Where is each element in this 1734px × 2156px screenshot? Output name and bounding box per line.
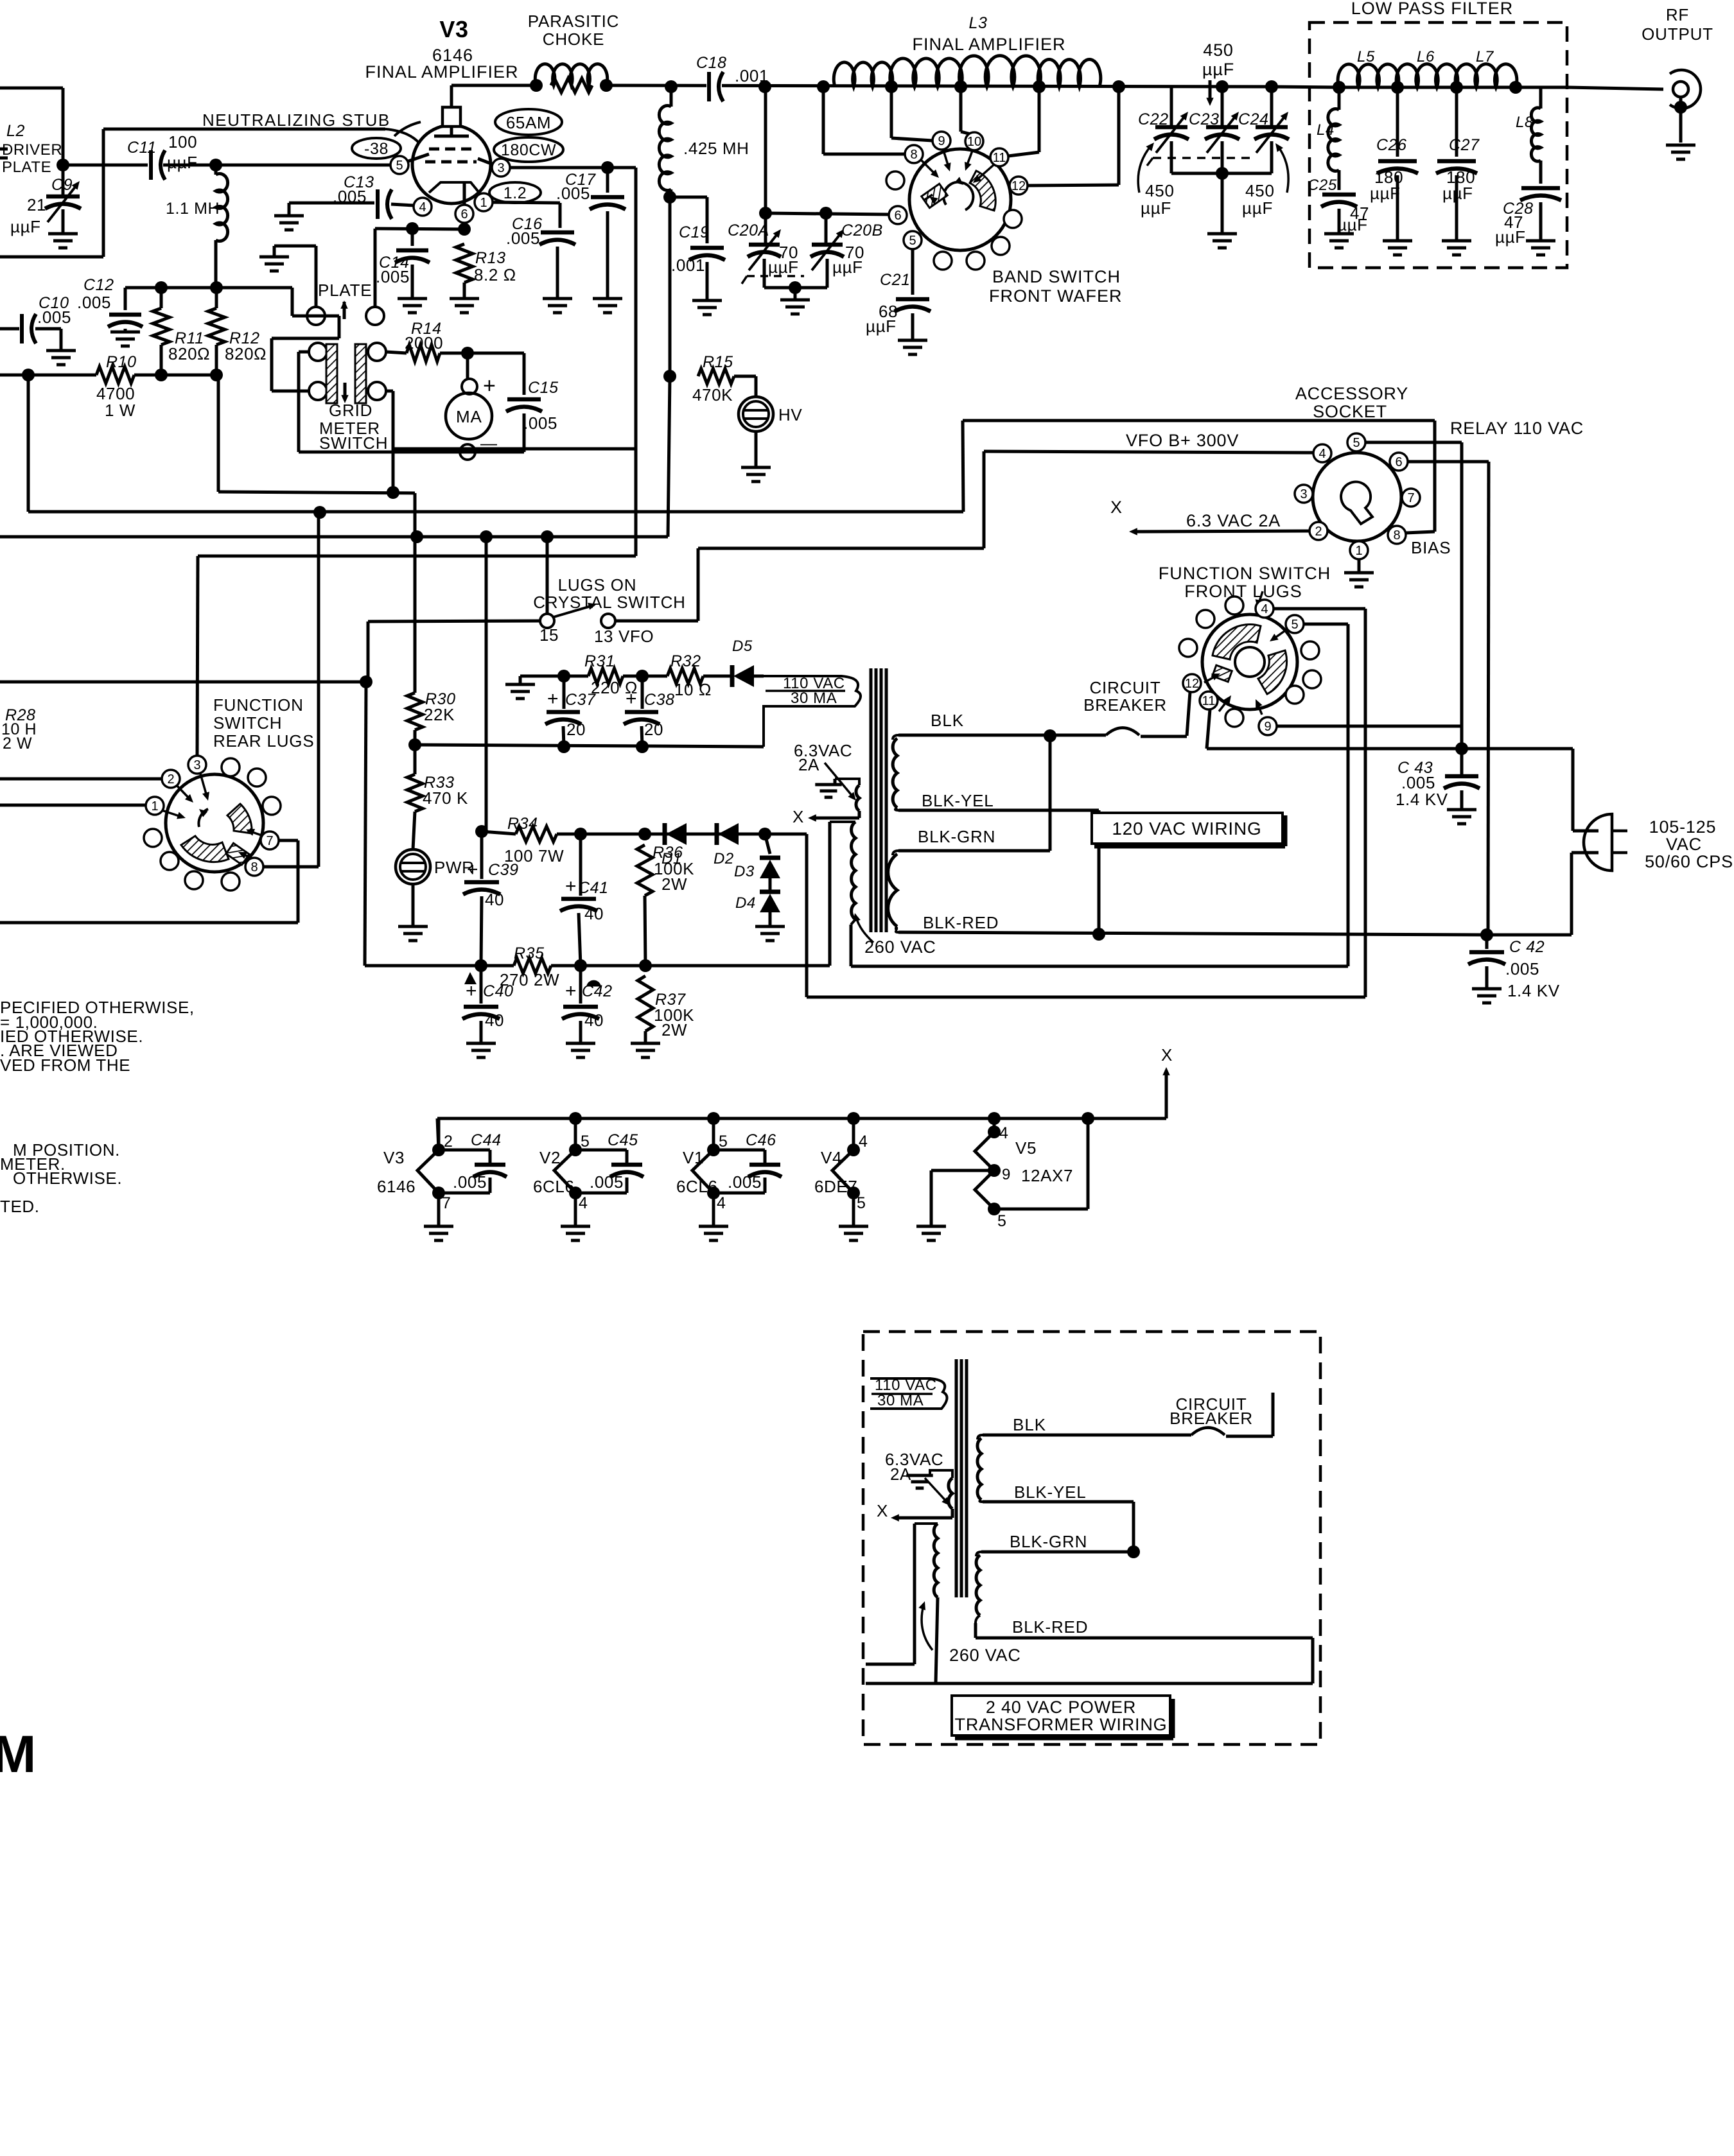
svg-text:NEUTRALIZING STUB: NEUTRALIZING STUB bbox=[202, 110, 390, 130]
transformer core bbox=[871, 668, 886, 932]
wire pin6 bus bbox=[375, 222, 471, 307]
function switch rear wafer bbox=[162, 774, 263, 872]
svg-text:6146: 6146 bbox=[377, 1177, 416, 1196]
wire crystal riser to bus D bbox=[368, 451, 984, 682]
pin 1 bbox=[475, 193, 493, 211]
wire R35 bus bbox=[365, 682, 830, 972]
svg-text:4: 4 bbox=[999, 1124, 1009, 1142]
milliammeter MA bbox=[446, 353, 498, 460]
svg-text:C42: C42 bbox=[582, 982, 613, 1000]
svg-text:+: + bbox=[483, 374, 496, 398]
svg-text:OTHERWISE.: OTHERWISE. bbox=[13, 1169, 122, 1188]
svg-text:C15: C15 bbox=[528, 379, 559, 397]
svg-text:CIRCUIT: CIRCUIT bbox=[1089, 678, 1160, 697]
svg-text:450: 450 bbox=[1203, 40, 1233, 60]
svg-text:11: 11 bbox=[993, 151, 1006, 165]
svg-text:FINAL AMPLIFIER: FINAL AMPLIFIER bbox=[912, 35, 1065, 54]
svg-text:D3: D3 bbox=[734, 863, 755, 880]
svg-text:1: 1 bbox=[151, 799, 158, 813]
wire rear lug7 bbox=[0, 840, 298, 923]
pin 4 bbox=[414, 198, 432, 216]
function switch front wafer bbox=[1202, 591, 1297, 715]
svg-text:470 K: 470 K bbox=[423, 788, 468, 808]
capacitor C39 bbox=[463, 831, 519, 966]
svg-text:X: X bbox=[1161, 1045, 1173, 1065]
svg-text:2A: 2A bbox=[890, 1465, 911, 1484]
svg-text:6CL6: 6CL6 bbox=[533, 1177, 575, 1196]
svg-text:V2: V2 bbox=[539, 1148, 561, 1167]
inductor L8 bbox=[1516, 87, 1541, 184]
svg-text:L7: L7 bbox=[1476, 48, 1494, 65]
neutralizing stub bbox=[103, 110, 419, 143]
svg-text:22K: 22K bbox=[424, 705, 455, 724]
svg-text:R15: R15 bbox=[703, 353, 733, 371]
svg-text:12AX7: 12AX7 bbox=[1021, 1166, 1073, 1185]
resistor R33 bbox=[407, 745, 468, 849]
svg-text:C12: C12 bbox=[83, 276, 114, 294]
resistor R35 bbox=[500, 944, 559, 989]
svg-text:8: 8 bbox=[1393, 528, 1400, 543]
tube V1 heater with C46 bbox=[676, 1118, 782, 1240]
capacitor C14 bbox=[376, 229, 430, 313]
svg-text:.425 MH: .425 MH bbox=[683, 139, 749, 158]
capacitor C38 bbox=[624, 676, 675, 747]
lamp HV bbox=[739, 376, 802, 482]
svg-text:VED FROM THE: VED FROM THE bbox=[0, 1056, 130, 1075]
oval -38 bbox=[352, 138, 401, 159]
240 box BLK wire with breaker bbox=[983, 1393, 1273, 1436]
240 box X arrow bbox=[877, 1501, 952, 1522]
notes text block bbox=[0, 998, 195, 1075]
svg-text:.005: .005 bbox=[523, 413, 557, 433]
wire accessory lug6 down bbox=[1408, 462, 1489, 935]
svg-text:C21: C21 bbox=[880, 271, 911, 289]
svg-text:7: 7 bbox=[266, 834, 273, 848]
wire BLK with circuit breaker bbox=[898, 728, 1187, 743]
label FUNCTION SWITCH REAR LUGS bbox=[213, 695, 314, 751]
L2 driver plate shield box bbox=[0, 88, 103, 257]
capacitor C19 bbox=[671, 223, 725, 315]
svg-text:260 VAC: 260 VAC bbox=[949, 1646, 1021, 1665]
capacitor C13 bbox=[289, 173, 414, 219]
svg-text:L4: L4 bbox=[1317, 121, 1335, 139]
svg-text:450: 450 bbox=[1145, 181, 1175, 200]
svg-text:PWR: PWR bbox=[434, 858, 474, 877]
svg-text:C40: C40 bbox=[483, 982, 514, 1000]
wire C22-C24 bottom and ground bbox=[1147, 158, 1272, 248]
wire left bias line bbox=[0, 675, 372, 688]
svg-text:R31: R31 bbox=[584, 652, 615, 670]
svg-text:2 W: 2 W bbox=[3, 735, 32, 752]
svg-text:820Ω: 820Ω bbox=[168, 344, 210, 363]
svg-text:C27: C27 bbox=[1449, 136, 1480, 154]
svg-text:.005: .005 bbox=[1505, 959, 1539, 978]
svg-text:40: 40 bbox=[485, 1011, 504, 1030]
svg-text:3: 3 bbox=[497, 161, 504, 175]
svg-text:1 W: 1 W bbox=[105, 401, 136, 420]
svg-text:5: 5 bbox=[396, 159, 403, 173]
svg-text:SWITCH: SWITCH bbox=[213, 713, 282, 733]
label CIRCUIT BREAKER bbox=[1083, 678, 1167, 715]
label PLATE with arrow bbox=[318, 281, 372, 319]
label LUGS ON CRYSTAL SWITCH bbox=[533, 575, 686, 612]
240 box 6.3VAC winding bbox=[885, 1450, 952, 1509]
capacitor C17 bbox=[556, 161, 626, 313]
svg-text:2000: 2000 bbox=[405, 333, 443, 352]
svg-text:M: M bbox=[0, 1725, 36, 1784]
svg-text:12: 12 bbox=[1185, 677, 1199, 691]
wire front lug11 bbox=[1207, 709, 1573, 755]
240 box BLK-RED wire bbox=[976, 1617, 1313, 1683]
240 VAC dashed box bbox=[863, 1332, 1320, 1744]
pin 5 bbox=[390, 156, 408, 174]
capacitor C40 bbox=[462, 966, 514, 1057]
svg-text:.005: .005 bbox=[333, 187, 367, 206]
wire to C19 bbox=[670, 197, 707, 243]
svg-text:C26: C26 bbox=[1376, 136, 1407, 154]
svg-text:5: 5 bbox=[997, 1212, 1007, 1230]
svg-text:BLK-YEL: BLK-YEL bbox=[1014, 1482, 1087, 1502]
tube V4 heater bbox=[814, 1118, 868, 1240]
svg-text:9: 9 bbox=[938, 134, 945, 148]
capacitor C23 (variable) bbox=[1189, 80, 1239, 173]
svg-text:7: 7 bbox=[1407, 491, 1414, 505]
wire C11 to pin5 bbox=[163, 159, 391, 171]
label 450 uuF with down arrow bbox=[1202, 40, 1234, 106]
wire B+ column bbox=[663, 197, 676, 537]
svg-text:OUTPUT: OUTPUT bbox=[1642, 24, 1713, 44]
wire driver plate to C11 bbox=[57, 159, 148, 171]
svg-text:L3: L3 bbox=[968, 14, 987, 32]
svg-text:5: 5 bbox=[1291, 618, 1298, 632]
diode D2 bbox=[714, 823, 739, 867]
capacitor C10 bbox=[0, 294, 76, 365]
wire BLK-YEL bbox=[898, 810, 1099, 934]
accessory socket bbox=[1313, 453, 1401, 541]
svg-text:BLK-RED: BLK-RED bbox=[923, 913, 999, 932]
label R28 choke bbox=[1, 706, 37, 752]
svg-text:5: 5 bbox=[1353, 436, 1360, 450]
ground accessory lug 1 bbox=[1344, 559, 1374, 587]
svg-text:450: 450 bbox=[1245, 181, 1275, 200]
svg-text:µµF: µµF bbox=[1442, 184, 1473, 203]
svg-text:TRANSFORMER WIRING: TRANSFORMER WIRING bbox=[955, 1715, 1168, 1734]
svg-text:BREAKER: BREAKER bbox=[1083, 695, 1167, 715]
svg-text:5: 5 bbox=[581, 1133, 590, 1151]
resistor R12 bbox=[208, 288, 267, 375]
transformer 110VAC 30MA winding bracket bbox=[764, 675, 861, 747]
svg-text:2W: 2W bbox=[661, 1020, 687, 1039]
capacitor C20B (variable) bbox=[810, 207, 883, 288]
svg-text:7: 7 bbox=[442, 1194, 451, 1212]
resistor R36 bbox=[637, 844, 694, 966]
wire bus A relay bbox=[28, 375, 963, 519]
band switch front wafer bbox=[909, 149, 1011, 250]
svg-text:FRONT LUGS: FRONT LUGS bbox=[1184, 582, 1302, 601]
svg-text:FINAL AMPLIFIER: FINAL AMPLIFIER bbox=[365, 62, 518, 82]
svg-text:C20B: C20B bbox=[841, 222, 883, 239]
wire rear lug8 bbox=[263, 512, 319, 867]
svg-text:10: 10 bbox=[967, 135, 981, 149]
240 box label BLK / CIRCUIT BREAKER bbox=[1013, 1395, 1253, 1434]
capacitor C37 bbox=[545, 676, 596, 747]
capacitor C21 bbox=[866, 249, 931, 354]
svg-text:L6: L6 bbox=[1417, 48, 1435, 65]
svg-text:µµF: µµF bbox=[1242, 198, 1273, 218]
svg-text:.005: .005 bbox=[37, 308, 71, 327]
svg-text:820Ω: 820Ω bbox=[225, 344, 267, 363]
svg-text:40: 40 bbox=[584, 1011, 604, 1030]
resistor R13 bbox=[450, 244, 516, 313]
notes text block 2 bbox=[0, 1140, 122, 1216]
resistor R10 bbox=[0, 353, 223, 420]
svg-text:40: 40 bbox=[584, 904, 604, 923]
ground left of plate jack bbox=[259, 246, 316, 307]
label box 120 VAC WIRING bbox=[1092, 813, 1285, 846]
svg-text:L5: L5 bbox=[1357, 48, 1375, 65]
inductor 1.1 MH choke bbox=[166, 165, 228, 288]
tube V2 heater with C45 bbox=[533, 1118, 644, 1240]
svg-text:4: 4 bbox=[859, 1133, 868, 1151]
svg-text:µµF: µµF bbox=[1141, 198, 1171, 218]
capacitor C25 bbox=[1308, 177, 1369, 248]
svg-text:L8: L8 bbox=[1516, 114, 1534, 131]
wire pin1 to C16 bbox=[492, 202, 560, 228]
power plug bbox=[1584, 814, 1627, 871]
svg-text:HV: HV bbox=[778, 405, 802, 424]
svg-text:8: 8 bbox=[250, 860, 258, 874]
svg-text:X: X bbox=[877, 1501, 888, 1520]
svg-text:µµF: µµF bbox=[167, 153, 198, 172]
capacitor C22 (variable) bbox=[1138, 87, 1189, 173]
svg-text:BLK: BLK bbox=[1013, 1415, 1046, 1434]
svg-text:2: 2 bbox=[1315, 525, 1322, 539]
gang arrows 450uuF labels bbox=[1138, 143, 1288, 218]
svg-text:5: 5 bbox=[719, 1133, 728, 1151]
svg-text:15: 15 bbox=[539, 625, 559, 645]
svg-text:PLATE: PLATE bbox=[318, 281, 372, 300]
wire R10 riser bbox=[218, 375, 415, 499]
wire bridge y699 bbox=[393, 448, 636, 451]
svg-text:C22: C22 bbox=[1138, 110, 1169, 128]
svg-text:120 VAC WIRING: 120 VAC WIRING bbox=[1112, 819, 1261, 839]
svg-text:C11: C11 bbox=[127, 139, 157, 157]
ground C9 bbox=[48, 209, 78, 248]
tube V3 6146 final amplifier bbox=[394, 85, 495, 205]
240 box transformer core bbox=[956, 1359, 967, 1597]
svg-text:µµF: µµF bbox=[1337, 215, 1368, 234]
oval 180CW bbox=[494, 137, 563, 162]
svg-text:40: 40 bbox=[485, 890, 504, 909]
svg-text:2W: 2W bbox=[661, 874, 687, 894]
svg-text:.005: .005 bbox=[506, 229, 540, 248]
transformer primary BLK-GRN winding bbox=[888, 851, 898, 932]
svg-text:20: 20 bbox=[566, 720, 586, 739]
plate jack circles bbox=[307, 307, 384, 325]
svg-text:MA: MA bbox=[456, 407, 482, 426]
wire front lug12 to breaker bbox=[1187, 692, 1190, 736]
svg-text:D2: D2 bbox=[714, 850, 734, 867]
svg-text:V3: V3 bbox=[383, 1148, 405, 1167]
label FUNCTION SWITCH FRONT LUGS bbox=[1159, 564, 1331, 601]
capacitor C12 bbox=[77, 276, 143, 346]
240 box 260VAC winding bbox=[866, 1524, 938, 1683]
svg-text:R10: R10 bbox=[106, 353, 137, 371]
240 box bottom wire bbox=[866, 1682, 1313, 1685]
wire rear lug2 bbox=[0, 778, 162, 781]
svg-text:2: 2 bbox=[444, 1133, 453, 1151]
svg-text:.005: .005 bbox=[556, 184, 590, 203]
svg-text:R35: R35 bbox=[514, 944, 545, 962]
wire relay 110vac bbox=[963, 421, 1435, 533]
diode D3 bbox=[734, 834, 780, 880]
resistor R30 bbox=[407, 493, 456, 745]
svg-text:470K: 470K bbox=[692, 385, 733, 404]
resistor R37 bbox=[631, 976, 694, 1057]
capacitor C18 bbox=[696, 54, 769, 102]
label ACCESSORY SOCKET bbox=[1295, 384, 1408, 421]
240 box BLK-YEL wire bbox=[983, 1482, 1140, 1558]
diode D5 bbox=[732, 638, 754, 687]
svg-text:30 MA: 30 MA bbox=[791, 690, 837, 707]
svg-text:+: + bbox=[626, 688, 637, 709]
svg-text:105-125: 105-125 bbox=[1649, 817, 1717, 837]
wire front lug9 bbox=[1277, 725, 1462, 728]
svg-text:R13: R13 bbox=[475, 249, 506, 267]
wire LPF main line bbox=[1272, 81, 1663, 94]
tube V3 heater with C44 bbox=[377, 1118, 507, 1240]
ground bias line left bbox=[505, 676, 535, 699]
svg-text:-38: -38 bbox=[364, 140, 389, 158]
svg-text:BAND SWITCH: BAND SWITCH bbox=[992, 267, 1121, 286]
capacitor C24 (variable) bbox=[1238, 80, 1289, 173]
inductor L6 bbox=[1396, 48, 1458, 87]
wire BLK to BLK-GRN tie bbox=[898, 736, 1050, 851]
svg-text:180CW: 180CW bbox=[501, 141, 556, 159]
wire 260VAC to lug5 front bbox=[851, 965, 1348, 968]
svg-text:SWITCH: SWITCH bbox=[319, 433, 388, 453]
inductor .425 MH bbox=[659, 87, 749, 204]
svg-text:2 40 VAC POWER: 2 40 VAC POWER bbox=[986, 1698, 1136, 1717]
svg-text:BLK-GRN: BLK-GRN bbox=[1010, 1532, 1087, 1551]
svg-text:6: 6 bbox=[894, 209, 901, 223]
wire bias rectifier line bbox=[520, 670, 764, 682]
svg-text:2A: 2A bbox=[798, 755, 819, 774]
svg-text:C 42: C 42 bbox=[1509, 938, 1545, 956]
label L3 FINAL AMPLIFIER bbox=[912, 14, 1065, 54]
svg-text:.005: .005 bbox=[453, 1172, 487, 1192]
svg-text:3: 3 bbox=[1300, 487, 1307, 501]
accessory socket lugs bbox=[1295, 433, 1420, 559]
svg-text:FUNCTION: FUNCTION bbox=[213, 695, 304, 715]
wire front lug4 bbox=[1274, 609, 1365, 997]
diode D4 bbox=[735, 878, 785, 941]
ground C13 bbox=[274, 214, 304, 218]
svg-text:PLATE: PLATE bbox=[2, 159, 51, 176]
svg-text:CRYSTAL SWITCH: CRYSTAL SWITCH bbox=[533, 593, 686, 612]
svg-text:C19: C19 bbox=[679, 223, 710, 241]
function switch front lugs bbox=[1179, 596, 1321, 735]
svg-text:L2: L2 bbox=[6, 122, 25, 140]
svg-text:6.3 VAC 2A: 6.3 VAC 2A bbox=[1186, 511, 1281, 530]
capacitor C15 bbox=[506, 353, 559, 452]
svg-text:µµF: µµF bbox=[768, 257, 799, 277]
svg-text:1.1 MH: 1.1 MH bbox=[166, 200, 220, 218]
svg-text:4: 4 bbox=[579, 1194, 588, 1212]
wire plate line bbox=[451, 79, 1272, 93]
tube V5 heater bbox=[916, 1118, 1088, 1240]
svg-text:C18: C18 bbox=[696, 54, 727, 72]
svg-text:C23: C23 bbox=[1189, 110, 1220, 128]
svg-text:5: 5 bbox=[857, 1194, 866, 1212]
svg-text:C38: C38 bbox=[644, 691, 675, 709]
label PARASITIC CHOKE bbox=[528, 12, 620, 49]
wire C12 bus bbox=[125, 281, 339, 391]
label L2 DRIVER PLATE bbox=[2, 122, 62, 176]
svg-text:6: 6 bbox=[460, 207, 468, 222]
svg-text:.001: .001 bbox=[671, 256, 705, 275]
capacitor C27 bbox=[1436, 87, 1480, 255]
svg-text:65AM: 65AM bbox=[506, 113, 551, 132]
svg-text:V5: V5 bbox=[1015, 1138, 1037, 1158]
svg-text:20: 20 bbox=[644, 720, 663, 739]
svg-text:5: 5 bbox=[909, 234, 916, 248]
wire rectifier line bbox=[475, 825, 1365, 997]
svg-text:SOCKET: SOCKET bbox=[1313, 402, 1387, 421]
svg-text:2: 2 bbox=[167, 772, 174, 787]
svg-text:C45: C45 bbox=[608, 1131, 638, 1149]
svg-text:3: 3 bbox=[193, 758, 200, 772]
svg-text:4: 4 bbox=[1261, 602, 1268, 616]
svg-text:V3: V3 bbox=[439, 16, 468, 42]
parasitic choke coil and resistor bbox=[535, 64, 607, 92]
label GRID METER SWITCH bbox=[319, 401, 388, 453]
band switch lugs bbox=[886, 132, 1028, 270]
svg-text:.005: .005 bbox=[728, 1172, 762, 1192]
svg-text:+: + bbox=[565, 980, 577, 1002]
label 105-125 VAC 50/60 CPS bbox=[1645, 817, 1733, 871]
wire to plug upper prong bbox=[1573, 749, 1598, 831]
wire bus B bbox=[0, 530, 668, 831]
low pass filter dashed box bbox=[1309, 22, 1567, 268]
svg-text:6: 6 bbox=[1395, 455, 1402, 469]
svg-text:+: + bbox=[547, 688, 559, 709]
svg-text:.005: .005 bbox=[77, 293, 111, 312]
capacitor C43 bbox=[1396, 749, 1480, 824]
svg-text:12: 12 bbox=[1011, 179, 1026, 193]
resistor R11 bbox=[153, 288, 210, 375]
svg-text:CHOKE: CHOKE bbox=[543, 30, 604, 49]
inductor L5 bbox=[1338, 48, 1399, 87]
svg-text:1: 1 bbox=[480, 196, 487, 210]
wire bias return bus bbox=[408, 738, 764, 753]
inductor L3 bbox=[834, 56, 1125, 93]
svg-text:C44: C44 bbox=[471, 1131, 502, 1149]
svg-text:DRIVER: DRIVER bbox=[2, 141, 62, 159]
svg-text:R34: R34 bbox=[507, 815, 538, 833]
pin 6 bbox=[455, 205, 473, 223]
capacitor C42 line bypass bbox=[1468, 935, 1560, 1003]
svg-text:FRONT WAFER: FRONT WAFER bbox=[989, 286, 1123, 306]
svg-text:GRID: GRID bbox=[329, 401, 372, 420]
wire to plug lower prong bbox=[1487, 853, 1598, 935]
svg-text:6CL6: 6CL6 bbox=[676, 1177, 718, 1196]
svg-text:.005: .005 bbox=[376, 267, 410, 286]
svg-text:260 VAC: 260 VAC bbox=[864, 937, 936, 957]
label box 240 VAC POWER TRANSFORMER WIRING bbox=[952, 1696, 1173, 1738]
svg-text:9: 9 bbox=[1264, 720, 1271, 734]
svg-text:30 MA: 30 MA bbox=[877, 1392, 924, 1409]
